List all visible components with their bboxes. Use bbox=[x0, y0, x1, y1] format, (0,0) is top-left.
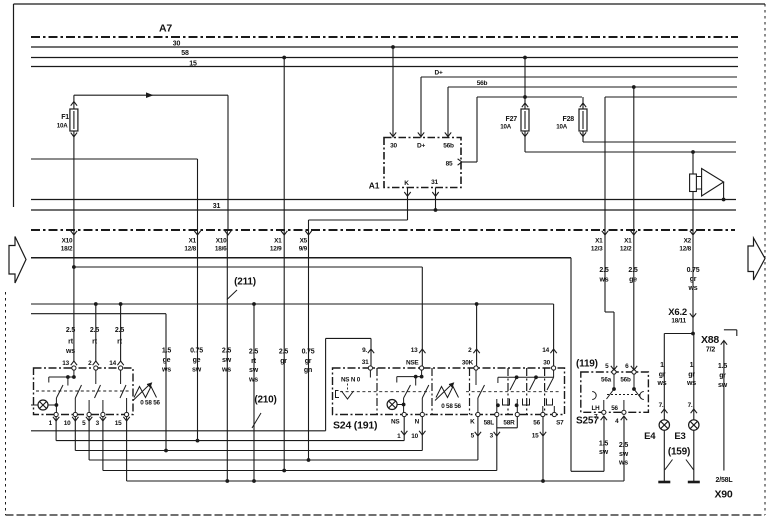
svg-text:15: 15 bbox=[532, 433, 539, 440]
svg-text:D+: D+ bbox=[434, 70, 442, 77]
svg-text:30K: 30K bbox=[462, 360, 474, 367]
svg-text:1.5: 1.5 bbox=[162, 348, 171, 355]
svg-text:gr: gr bbox=[659, 372, 666, 379]
svg-text:F1: F1 bbox=[61, 114, 69, 121]
svg-text:A1: A1 bbox=[369, 181, 380, 191]
svg-text:15: 15 bbox=[189, 61, 197, 68]
svg-text:gn: gn bbox=[304, 367, 312, 374]
svg-text:2.5: 2.5 bbox=[599, 267, 608, 274]
svg-text:2/58L: 2/58L bbox=[716, 477, 734, 484]
svg-text:13: 13 bbox=[62, 360, 69, 367]
svg-text:0.75: 0.75 bbox=[302, 349, 315, 356]
svg-text:2.5: 2.5 bbox=[628, 267, 637, 274]
svg-text:14: 14 bbox=[109, 360, 116, 367]
svg-text:NS N 0: NS N 0 bbox=[341, 377, 361, 384]
svg-text:A7: A7 bbox=[159, 23, 172, 35]
svg-text:sw: sw bbox=[192, 367, 202, 374]
svg-text:LH: LH bbox=[592, 405, 601, 412]
svg-text:0 58 56: 0 58 56 bbox=[441, 403, 461, 410]
svg-text:1: 1 bbox=[660, 362, 664, 369]
svg-text:K: K bbox=[404, 180, 409, 187]
svg-text:56b: 56b bbox=[443, 143, 454, 150]
svg-text:10A: 10A bbox=[556, 124, 567, 131]
svg-text:18/11: 18/11 bbox=[671, 318, 686, 325]
svg-text:2.5: 2.5 bbox=[222, 348, 231, 355]
svg-text:18/6: 18/6 bbox=[215, 246, 227, 253]
svg-text:X88: X88 bbox=[701, 334, 719, 346]
svg-text:1.5: 1.5 bbox=[718, 363, 727, 370]
svg-text:18/2: 18/2 bbox=[61, 246, 73, 253]
svg-text:10: 10 bbox=[411, 433, 418, 440]
svg-text:30: 30 bbox=[390, 143, 397, 150]
svg-text:X1: X1 bbox=[624, 238, 632, 245]
svg-text:10A: 10A bbox=[57, 123, 68, 130]
svg-text:(211): (211) bbox=[234, 277, 256, 288]
svg-text:31: 31 bbox=[362, 359, 369, 366]
svg-text:9/9: 9/9 bbox=[299, 246, 308, 253]
svg-text:X1: X1 bbox=[274, 238, 282, 245]
svg-text:2.5: 2.5 bbox=[90, 327, 99, 334]
svg-text:2.5: 2.5 bbox=[279, 349, 288, 356]
svg-text:ws: ws bbox=[618, 460, 628, 467]
svg-text:58L: 58L bbox=[484, 420, 495, 427]
svg-text:NSE: NSE bbox=[406, 360, 419, 367]
svg-text:(210): (210) bbox=[254, 395, 276, 406]
svg-text:X10: X10 bbox=[216, 238, 227, 245]
svg-text:N: N bbox=[415, 419, 420, 426]
svg-text:9.: 9. bbox=[362, 347, 367, 354]
svg-text:X90: X90 bbox=[714, 489, 732, 501]
svg-text:31: 31 bbox=[431, 179, 438, 186]
svg-text:X10: X10 bbox=[62, 238, 73, 245]
svg-text:X1: X1 bbox=[595, 238, 603, 245]
svg-text:D+: D+ bbox=[417, 143, 425, 150]
svg-text:gr: gr bbox=[688, 372, 695, 379]
svg-text:12/8: 12/8 bbox=[679, 246, 691, 253]
svg-text:2.5: 2.5 bbox=[115, 327, 124, 334]
svg-text:7.: 7. bbox=[688, 402, 693, 409]
svg-text:ws: ws bbox=[686, 380, 696, 387]
svg-text:X5: X5 bbox=[300, 238, 308, 245]
svg-text:F27: F27 bbox=[506, 116, 518, 123]
svg-text:gr: gr bbox=[280, 358, 287, 365]
svg-text:10: 10 bbox=[64, 420, 71, 427]
svg-text:7.: 7. bbox=[594, 414, 599, 421]
svg-text:X1: X1 bbox=[189, 238, 197, 245]
svg-text:(119): (119) bbox=[576, 359, 598, 370]
svg-text:56: 56 bbox=[611, 405, 618, 412]
svg-text:56a: 56a bbox=[601, 377, 612, 384]
svg-text:K: K bbox=[470, 419, 475, 426]
svg-text:0 58 56: 0 58 56 bbox=[140, 400, 160, 407]
svg-text:(159): (159) bbox=[668, 447, 690, 458]
svg-text:ge: ge bbox=[629, 277, 637, 284]
svg-text:12/3: 12/3 bbox=[591, 246, 603, 253]
svg-text:12/9: 12/9 bbox=[270, 246, 282, 253]
svg-text:gr: gr bbox=[690, 276, 697, 283]
svg-text:E4: E4 bbox=[644, 431, 656, 442]
svg-text:NS: NS bbox=[391, 419, 400, 426]
svg-text:ge: ge bbox=[163, 357, 171, 364]
svg-text:7/2: 7/2 bbox=[706, 347, 715, 354]
svg-text:F28: F28 bbox=[563, 116, 575, 123]
svg-text:2.5: 2.5 bbox=[66, 327, 75, 334]
svg-text:ws: ws bbox=[688, 285, 698, 292]
svg-text:X2: X2 bbox=[684, 238, 692, 245]
svg-text:56b: 56b bbox=[477, 80, 488, 87]
svg-text:7.: 7. bbox=[659, 402, 664, 409]
svg-text:56: 56 bbox=[533, 420, 540, 427]
svg-text:58: 58 bbox=[181, 50, 189, 57]
svg-text:0.75: 0.75 bbox=[687, 267, 700, 274]
svg-text:14: 14 bbox=[542, 347, 549, 354]
svg-text:13: 13 bbox=[411, 347, 418, 354]
svg-text:30: 30 bbox=[543, 360, 550, 367]
svg-text:ws: ws bbox=[657, 380, 667, 387]
svg-text:15: 15 bbox=[115, 420, 122, 427]
svg-text:gr: gr bbox=[305, 358, 312, 365]
svg-text:X6.2: X6.2 bbox=[668, 307, 687, 318]
svg-text:E3: E3 bbox=[674, 431, 685, 442]
svg-text:ws: ws bbox=[221, 367, 231, 374]
svg-text:58R: 58R bbox=[503, 420, 515, 427]
svg-text:S7: S7 bbox=[556, 420, 564, 427]
svg-text:12/2: 12/2 bbox=[620, 246, 632, 253]
svg-text:1: 1 bbox=[690, 362, 694, 369]
svg-text:ws: ws bbox=[65, 348, 75, 355]
svg-text:ws: ws bbox=[599, 277, 609, 284]
svg-text:sw: sw bbox=[222, 357, 232, 364]
svg-text:31: 31 bbox=[213, 203, 221, 210]
svg-text:ws: ws bbox=[248, 377, 258, 384]
svg-text:10A: 10A bbox=[500, 124, 511, 131]
svg-text:ge: ge bbox=[193, 357, 201, 364]
svg-text:sw: sw bbox=[718, 382, 728, 389]
svg-text:S24 (191): S24 (191) bbox=[333, 420, 377, 432]
svg-text:85: 85 bbox=[446, 161, 453, 168]
svg-text:gr: gr bbox=[719, 373, 726, 380]
svg-text:56b: 56b bbox=[620, 377, 631, 384]
svg-text:0.75: 0.75 bbox=[190, 348, 203, 355]
svg-text:30: 30 bbox=[173, 41, 181, 48]
svg-text:12/8: 12/8 bbox=[184, 246, 196, 253]
